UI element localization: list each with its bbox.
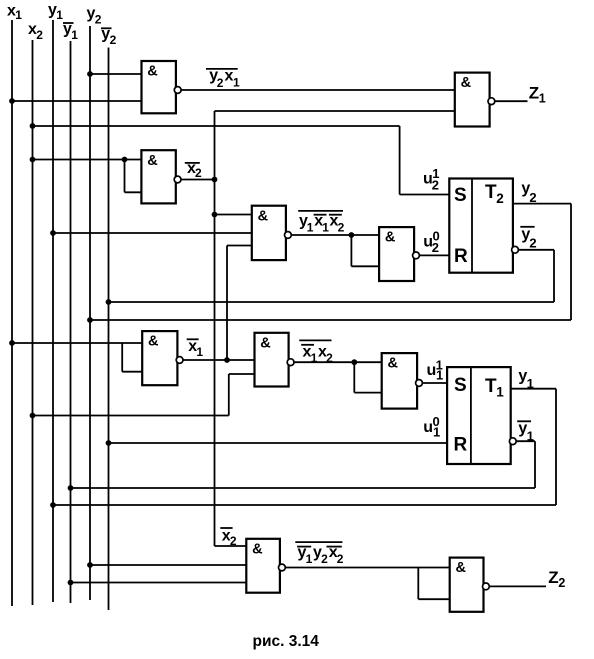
label y2-bar at T2 output	[520, 226, 536, 250]
svg-text:&: &	[388, 356, 399, 372]
wire x1 to gate D1 input 2	[12, 100, 142, 102]
input column y2-bar	[101, 26, 117, 610]
flip-flop T1	[447, 367, 511, 464]
wire D7 output to T1 S input	[422, 382, 447, 384]
wire T2 Q-bar output y2-bar	[518, 250, 554, 302]
gate D5 (inverter x1)	[142, 331, 183, 385]
label u11	[427, 357, 444, 382]
label y1 x1bar x2bar with long overline	[298, 211, 344, 235]
label y1-bar at T1 output	[517, 420, 534, 443]
svg-text:1: 1	[539, 92, 546, 106]
junction dot on y2	[87, 71, 93, 77]
wire D2 output to x2-bar node	[181, 179, 215, 181]
svg-text:1: 1	[527, 429, 534, 444]
gate D9 (inverter Z2)	[450, 558, 490, 612]
wire T2 Q output y2	[513, 204, 571, 320]
wire y2-bar column to T1 R input	[106, 440, 448, 446]
gate D8 (NAND y1bar y2 x2bar)	[246, 539, 285, 593]
wire D6 output to gate D7	[294, 359, 382, 392]
svg-text:2: 2	[496, 191, 504, 206]
svg-text:2: 2	[110, 33, 117, 47]
svg-text:2: 2	[432, 178, 439, 193]
input column y2	[87, 5, 102, 600]
svg-text:2: 2	[321, 552, 328, 566]
label y1 at T1 output	[518, 368, 533, 391]
svg-text:1: 1	[307, 221, 314, 235]
input column y1-bar	[63, 21, 78, 603]
wire y2 to gate D1 input 1	[90, 73, 142, 75]
vertical net x2-bar	[214, 111, 216, 546]
label x2-bar at gate D8	[220, 527, 237, 548]
wire D1 output to Z1 gate input 1	[181, 89, 455, 91]
wire x2-bar vertical to Z1 gate input 2	[215, 110, 455, 112]
svg-text:Z: Z	[548, 568, 558, 587]
wire D3 output to gate D4	[291, 232, 379, 266]
label x1-bar	[187, 338, 204, 359]
wire x2 to u21 / T2 S input	[30, 123, 450, 194]
svg-text:&: &	[147, 64, 158, 80]
label y2 at T2 output	[521, 180, 536, 205]
label u21	[423, 166, 439, 193]
svg-text:1: 1	[496, 385, 504, 400]
svg-text:2: 2	[230, 534, 237, 548]
gate D10 Z1 output NAND	[455, 73, 495, 127]
svg-text:T: T	[485, 376, 497, 397]
svg-text:1: 1	[15, 8, 22, 22]
wire y2 to gate D8 input 2	[87, 562, 246, 568]
svg-text:2: 2	[529, 190, 536, 205]
svg-text:2: 2	[432, 240, 439, 255]
wire y2 feedback to column	[87, 317, 571, 323]
svg-text:2: 2	[338, 221, 345, 235]
svg-text:S: S	[454, 375, 467, 396]
svg-text:рис. 3.14: рис. 3.14	[253, 633, 320, 650]
gate D2 (inverter x2)	[141, 150, 181, 203]
wire Z2 output	[489, 585, 546, 587]
svg-text:1: 1	[71, 28, 78, 42]
label Z1	[529, 84, 546, 106]
wire x2-bar vertical to gate D8 input 1	[215, 545, 247, 547]
wire x2 to gate D2 input	[30, 157, 142, 193]
svg-text:1: 1	[322, 221, 329, 235]
svg-text:2: 2	[529, 235, 536, 250]
svg-text:R: R	[454, 246, 468, 267]
svg-text:1: 1	[196, 345, 203, 359]
label y1bar y2 x2bar with long overline	[295, 542, 344, 566]
svg-text:&: &	[147, 153, 158, 169]
svg-text:2: 2	[95, 13, 102, 27]
node x1-bar junction	[224, 357, 230, 363]
svg-text:1: 1	[436, 367, 443, 382]
wire D5 output to gate D6 input 1	[183, 359, 255, 361]
gate D1 (NAND y2 x1)	[142, 61, 182, 113]
svg-text:1: 1	[527, 376, 534, 391]
input column y1	[48, 1, 63, 602]
svg-text:2: 2	[337, 552, 344, 566]
no dot at loop	[122, 371, 142, 373]
junction dot on x1	[9, 98, 15, 104]
wire y1 feedback to column	[50, 502, 556, 508]
wire y2-bar feedback to column	[106, 299, 554, 305]
svg-text:&: &	[385, 230, 396, 246]
svg-text:2: 2	[217, 76, 224, 90]
gate D4 (inverter u20)	[379, 227, 419, 281]
svg-text:S: S	[454, 185, 467, 206]
wire y1-bar to gate D8 input 3	[68, 580, 247, 586]
T1 Q-bar bubble	[509, 438, 516, 445]
svg-text:2: 2	[558, 576, 565, 590]
input column x1	[7, 3, 22, 606]
gate D6 (NAND x1bar x2)	[255, 333, 295, 387]
label x2-bar	[185, 160, 202, 180]
wire T1 Q-bar output y1-bar	[516, 441, 535, 488]
gate D7 (inverter u11)	[382, 353, 423, 409]
svg-text:T: T	[485, 182, 497, 203]
wire D8 output to gate D9	[285, 568, 449, 600]
wire x2 to gate D6 input 2	[30, 374, 255, 418]
wire D4 output to T2 R input	[419, 254, 449, 256]
label x1bar x2 with long overline	[299, 340, 333, 365]
svg-text:&: &	[258, 208, 269, 224]
svg-text:&: &	[260, 335, 271, 351]
svg-text:&: &	[252, 541, 263, 557]
svg-text:&: &	[148, 334, 159, 350]
node x2-bar junction	[212, 177, 218, 183]
svg-text:Z: Z	[529, 84, 539, 103]
wire y1-bar feedback to column	[68, 485, 535, 491]
wire x1 to gate D5 input	[9, 340, 142, 372]
svg-text:R: R	[454, 435, 468, 456]
svg-text:2: 2	[36, 28, 43, 42]
label u10	[423, 414, 440, 440]
svg-text:&: &	[456, 560, 467, 576]
wire y1 to gate D3 input 2	[53, 232, 252, 234]
wire Z1 output	[495, 100, 528, 102]
svg-text:&: &	[461, 75, 472, 91]
svg-text:1: 1	[233, 75, 240, 89]
svg-text:u: u	[423, 419, 433, 436]
svg-text:1: 1	[433, 425, 440, 440]
wire x1-bar vertical to gate D3 input 3	[227, 246, 252, 361]
T2 Q-bar bubble	[512, 246, 519, 253]
label y2x1 with overline	[206, 67, 240, 90]
gate D3 (NAND y1 x1bar x2bar)	[252, 206, 291, 260]
flip-flop T2	[449, 179, 513, 273]
svg-text:1: 1	[306, 552, 313, 566]
input column x2	[28, 21, 43, 605]
label Z2	[548, 568, 565, 590]
wire T1 Q output y1	[511, 389, 556, 505]
svg-text:2: 2	[195, 166, 202, 180]
wire x2-bar to gate D3 input 1	[215, 214, 252, 216]
label u20	[423, 229, 439, 255]
